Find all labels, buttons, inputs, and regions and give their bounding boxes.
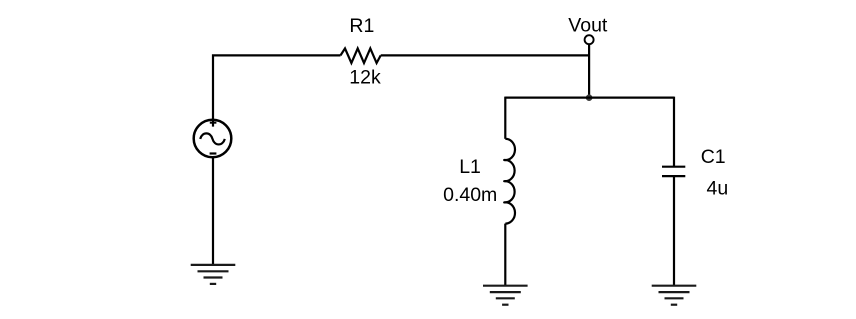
voltage source sine wave: [200, 133, 225, 144]
ground (C1): [652, 286, 697, 305]
resistor R1: [341, 48, 381, 63]
wire: resistor right to Vout node: [381, 54, 589, 56]
voltage source plus mark: [210, 122, 217, 124]
junction dot: [586, 94, 593, 101]
voltage source V1 circle: [194, 120, 232, 158]
wire: C1 top stub: [673, 97, 675, 167]
voltage source minus mark: [210, 152, 217, 154]
capacitor C1: [662, 167, 685, 176]
svg-text:4u: 4u: [707, 177, 729, 199]
wire: source bottom to ground: [212, 156, 214, 265]
node Vout terminal circle: [585, 35, 594, 44]
wire: C1 bottom to ground: [673, 176, 675, 286]
svg-text:12k: 12k: [349, 67, 381, 89]
inductor L1: [504, 139, 515, 224]
wire: source top to resistor left: [213, 55, 341, 126]
ground (source): [191, 265, 236, 284]
ground (L1): [483, 286, 528, 305]
svg-text:C1: C1: [701, 146, 726, 168]
wire: Vout terminal down to junction: [588, 44, 590, 98]
wire: middle horizontal L1 top to C1 top: [505, 96, 674, 98]
wire: L1 bottom to ground: [504, 224, 506, 286]
svg-text:L1: L1: [459, 156, 481, 178]
wire: L1 top stub: [504, 97, 506, 139]
svg-text:Vout: Vout: [568, 15, 608, 37]
svg-text:0.40m: 0.40m: [443, 184, 497, 206]
svg-text:R1: R1: [349, 15, 374, 37]
